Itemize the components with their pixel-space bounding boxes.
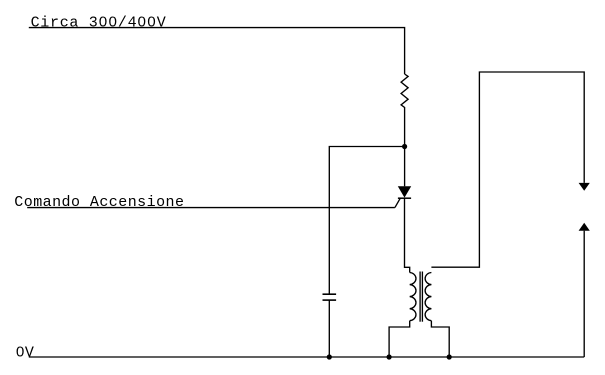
wire primary bottom to 0V (389, 321, 410, 357)
wire capacitor to 0V (328, 300, 330, 357)
wire secondary bottom to 0V (431, 321, 449, 357)
spark gap FL1 top electrode arrow (579, 183, 590, 191)
node 0V label (16, 344, 35, 361)
wire HV top rail (29, 28, 405, 74)
junction dot capacitor-0V (327, 354, 332, 359)
junction dot primary-0V (387, 354, 392, 359)
wire secondary top to spark gap top (431, 72, 584, 267)
transformer T1 core (419, 272, 421, 322)
transformer T1 secondary winding (425, 273, 431, 321)
node HV label "Circa 300/400V" (31, 14, 167, 31)
thyristor SCR1 (395, 186, 411, 207)
svg-text:0V: 0V (16, 344, 35, 361)
wire 0V rail (29, 356, 584, 358)
capacitor C1 (323, 294, 337, 300)
wire spark gap bottom to 0V (583, 231, 585, 357)
transformer T1 primary winding (410, 273, 416, 321)
wire resistor to SCR anode (404, 110, 406, 186)
spark gap FL1 bottom electrode arrow (579, 223, 590, 231)
wire node A to capacitor branch (329, 147, 404, 295)
resistor R1 (401, 74, 408, 110)
wire gate (27, 207, 395, 209)
svg-text:Comando Accensione: Comando Accensione (14, 194, 184, 211)
junction dot secondary-0V (447, 354, 452, 359)
svg-text:Circa 300/400V: Circa 300/400V (31, 14, 167, 31)
node A junction dot (402, 144, 407, 149)
wire SCR cathode to transformer primary (405, 198, 410, 272)
